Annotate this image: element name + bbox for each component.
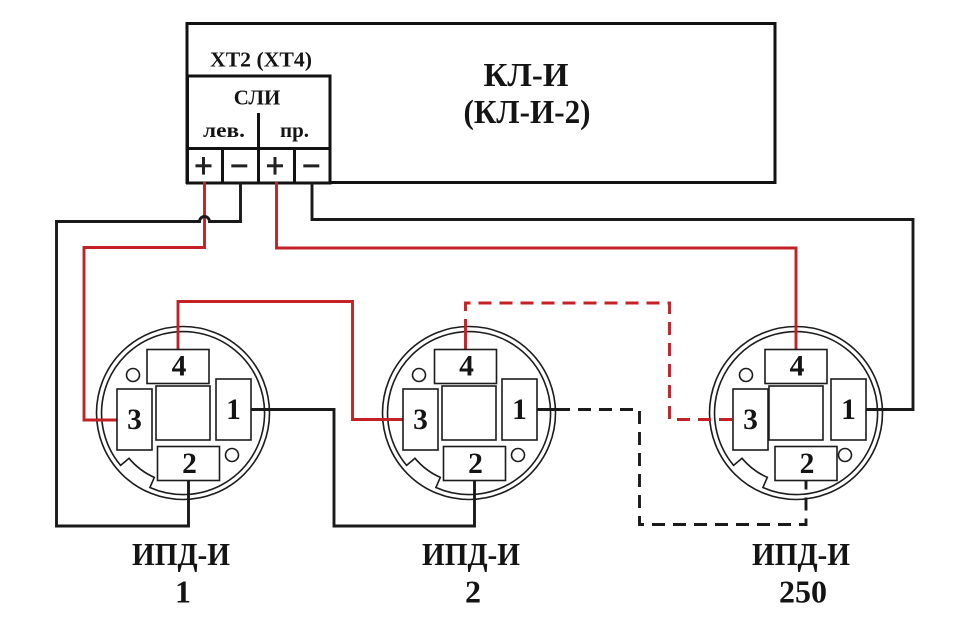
wire black solid stub at ИПД-И 2 pin 1 [537,408,557,411]
mounting hole upper-left of ИПД-И 250 [740,369,753,382]
terminal 1 of ИПД-И 1 [216,379,251,440]
terminal symbol − (СЛИ лев.) [231,164,247,167]
svg-text:3: 3 [127,404,142,436]
terminal symbol + (СЛИ лев.) [196,157,212,175]
mounting hole lower-right of ИПД-И 2 [512,449,525,462]
label ИПД-И 1 [132,536,230,610]
svg-text:4: 4 [790,351,805,383]
svg-text:ИПД-И: ИПД-И [132,536,230,572]
svg-text:2: 2 [468,448,483,480]
svg-text:лев.: лев. [203,118,245,142]
svg-text:СЛИ: СЛИ [234,86,281,110]
detector ИПД-И 2 base outer circle [383,327,556,500]
terminal 1 of ИПД-И 250 [831,379,866,440]
svg-text:пр.: пр. [280,118,309,142]
label ИПД-И 2 [422,536,520,610]
detector ИПД-И 1 base outer circle [97,327,270,500]
svg-text:4: 4 [172,351,187,383]
svg-text:КЛ-И: КЛ-И [484,57,569,94]
wire black dashed: ИПД-И 2 pin 1 to ИПД-И 250 pin 2 [557,410,806,525]
svg-text:250: 250 [779,574,827,610]
mounting hole lower-right of ИПД-И 1 [226,449,239,462]
detector ИПД-И 250 inner circle with mounting notch [715,332,878,495]
svg-text:2: 2 [182,448,197,480]
terminal 2 of ИПД-И 250 [775,447,837,481]
terminal 3 of ИПД-И 1 [117,389,152,450]
svg-text:1: 1 [226,394,241,426]
detector ИПД-И 250 base outer circle [710,327,883,500]
svg-text:2: 2 [465,574,481,610]
terminal 1 of ИПД-И 2 [502,379,537,440]
detector ИПД-И 2 inner circle with mounting notch [388,332,551,495]
terminal 4 of ИПД-И 250 [765,350,827,384]
svg-text:ХТ2 (ХТ4): ХТ2 (ХТ4) [210,48,312,72]
label ИПД-И 250 [752,536,850,610]
svg-text:ИПД-И: ИПД-И [752,536,850,572]
center square of ИПД-И 1 [156,386,210,440]
wire black: terminal −лев. to ИПД-И 1 pin 2 (hop over red wire) [57,182,241,526]
detector ИПД-И 1 inner circle with mounting notch [102,332,265,495]
terminal 4 of ИПД-И 2 [435,350,497,384]
mounting hole upper-left of ИПД-И 1 [127,369,140,382]
wire red solid stub at ИПД-И 2 pin 4 [464,332,467,350]
terminal symbol + (СЛИ пр.) [267,157,283,175]
svg-text:2: 2 [800,448,815,480]
terminal 3 of ИПД-И 250 [733,389,768,450]
svg-text:ИПД-И: ИПД-И [422,536,520,572]
wire red: terminal +лев. to ИПД-И 1 pin 3 [84,182,205,420]
wire red dashed: ИПД-И 2 pin 4 to ИПД-И 250 pin 3 [466,303,734,420]
terminal strip with 4 screw terminals [188,149,331,184]
svg-text:1: 1 [175,574,191,610]
wire red: ИПД-И 1 pin 4 to ИПД-И 2 pin 3 [178,302,403,420]
svg-text:(КЛ-И-2): (КЛ-И-2) [464,94,591,131]
svg-text:3: 3 [413,404,428,436]
svg-text:4: 4 [459,351,474,383]
wire red: terminal +пр. to ИПД-И 250 pin 4 [277,182,797,350]
center square of ИПД-И 250 [769,386,823,440]
device box КЛ-И (КЛ-И-2) [187,24,775,183]
svg-text:1: 1 [512,394,527,426]
svg-text:3: 3 [743,404,758,436]
mounting hole upper-left of ИПД-И 2 [413,369,426,382]
terminal symbol − (СЛИ пр.) [303,164,319,167]
terminal 3 of ИПД-И 2 [403,389,438,450]
center square of ИПД-И 2 [442,386,496,440]
wire black: terminal −пр. to ИПД-И 250 pin 1 [312,182,913,410]
terminal 2 of ИПД-И 1 [158,447,220,481]
wire black: ИПД-И 1 pin 1 to ИПД-И 2 pin 2 [251,410,475,527]
svg-text:1: 1 [841,394,856,426]
mounting hole lower-right of ИПД-И 250 [839,449,852,462]
terminal block СЛИ [188,76,331,149]
terminal 2 of ИПД-И 2 [444,447,506,481]
terminal 4 of ИПД-И 1 [147,350,209,384]
